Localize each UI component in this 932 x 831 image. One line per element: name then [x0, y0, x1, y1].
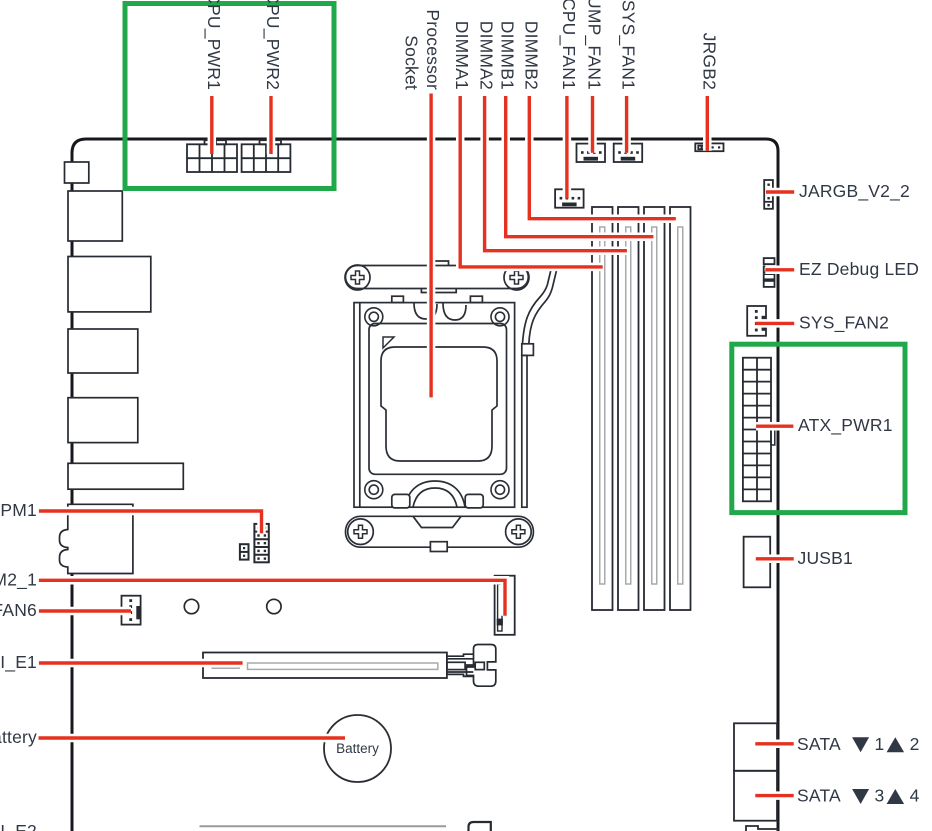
svg-text:2: 2 [910, 734, 920, 754]
svg-text:DIMMA1: DIMMA1 [452, 21, 472, 90]
DIMM slot DIMMA2 [618, 207, 639, 610]
label SATA 1 2 [797, 734, 920, 754]
io port usb1 [68, 329, 138, 373]
connector JARGB_V2_2 [764, 180, 773, 209]
svg-text:SYS_FAN6: SYS_FAN6 [0, 600, 37, 621]
DIMM slot DIMMA1 [592, 207, 613, 610]
wire SYS_FAN6 [39, 609, 131, 612]
svg-text:SATA: SATA [797, 786, 841, 806]
svg-text:SYS_FAN2: SYS_FAN2 [799, 312, 889, 333]
socket bottom arch [392, 481, 483, 508]
connector SYS_FAN2 [747, 306, 766, 336]
wire Processor Socket [429, 94, 432, 398]
label SATA 3 4 [797, 786, 920, 806]
svg-text:M2_1: M2_1 [0, 569, 37, 590]
svg-text:CPU_PWR2: CPU_PWR2 [262, 0, 283, 90]
svg-text:PUMP_FAN1: PUMP_FAN1 [584, 0, 605, 90]
svg-text:4: 4 [910, 786, 920, 806]
m.2 standoff hole B [267, 599, 281, 613]
connector PUMP_FAN1 [577, 144, 606, 162]
wire SATA34 [755, 794, 793, 797]
cpu socket top retention bar [346, 261, 529, 293]
io port ps2 [68, 191, 122, 241]
wire DIMMB1 [506, 96, 654, 237]
svg-text:SYS_FAN1: SYS_FAN1 [618, 0, 639, 90]
m.2 standoff hole A [184, 599, 198, 613]
svg-text:1: 1 [875, 734, 885, 754]
PCI_E1 slot [203, 653, 447, 679]
io port usb2 [68, 398, 138, 443]
svg-text:Processor: Processor [423, 9, 443, 90]
wire DIMMA1 [460, 96, 603, 267]
screw bottom-right phillips [506, 519, 532, 545]
io audio block [60, 504, 133, 573]
cpu socket frame [354, 296, 515, 507]
wire JTPM1 [39, 511, 262, 533]
wire SATA12 [755, 742, 793, 745]
right column labels [798, 181, 920, 568]
wire CPU_PWR2 [269, 96, 272, 154]
socket lever [522, 268, 557, 508]
wire M2_1 [39, 580, 505, 616]
wire DIMMA2 [485, 96, 627, 251]
svg-text:EZ Debug LED: EZ Debug LED [799, 259, 919, 279]
io port video [68, 463, 183, 489]
io tab [65, 162, 89, 183]
wire JRGB2 [706, 96, 709, 151]
svg-text:JRGB2: JRGB2 [699, 33, 719, 90]
screw bottom-left phillips [348, 519, 374, 545]
io port lan [68, 257, 151, 312]
svg-text:ATX_PWR1: ATX_PWR1 [798, 415, 893, 436]
svg-text:JARGB_V2_2: JARGB_V2_2 [799, 181, 910, 202]
screw top-right phillips [504, 265, 529, 290]
torx screws [365, 308, 509, 499]
left column labels [0, 500, 37, 831]
wire JARGB_V2_2 [766, 190, 794, 193]
wire CPU_FAN1 [565, 96, 568, 199]
connector JTPM1 [254, 524, 268, 562]
connector SYS_FAN6 [122, 596, 141, 625]
connector M2_1 slot [495, 576, 515, 635]
connector CPU_PWR2 [242, 140, 291, 172]
cpu IHS [381, 337, 497, 461]
wire SYS_FAN1 [625, 96, 628, 153]
svg-text:CPU_FAN1: CPU_FAN1 [558, 0, 579, 90]
wire SYS_FAN2 [756, 322, 795, 325]
svg-text:JUSB1: JUSB1 [798, 548, 853, 568]
cpu socket bottom retention bar [346, 516, 534, 551]
svg-text:DIMMB2: DIMMB2 [521, 21, 541, 90]
svg-text:Battery: Battery [336, 741, 379, 756]
connector SATA34 [734, 771, 777, 821]
PCI_E2 latch top [469, 822, 491, 831]
svg-text:Battery: Battery [0, 727, 37, 747]
svg-text:Socket: Socket [402, 35, 422, 90]
wire PUMP_FAN1 [591, 96, 594, 153]
svg-text:DIMMB1: DIMMB1 [498, 21, 518, 90]
DIMM slot DIMMB2 [670, 207, 691, 610]
wire CPU_PWR1 [210, 96, 213, 154]
wire Battery [39, 736, 346, 739]
io ports [60, 162, 184, 574]
connector JRGB2 [695, 143, 723, 151]
wire JUSB1 [756, 557, 794, 560]
sata bottom piece [746, 826, 778, 831]
white halos under leader lines [39, 94, 795, 796]
leader lines (red) [39, 94, 795, 796]
screw top-left phillips [345, 265, 370, 290]
connector CPU_FAN1 [555, 189, 584, 207]
connector SATA12 [734, 723, 777, 771]
svg-text:JTPM1: JTPM1 [0, 500, 37, 520]
wire ATX_PWR1 [756, 425, 793, 428]
PCI_E2 slot top edge [200, 825, 447, 827]
wire EZ Debug LED [765, 268, 794, 271]
connector SYS_FAN1 [614, 144, 643, 162]
DIMM slot DIMMB1 [644, 207, 665, 610]
jumper block next to JTPM1 [240, 544, 249, 559]
green highlight box ATX_PWR [732, 344, 905, 512]
connector ATX_PWR1 [743, 358, 775, 502]
svg-text:PCI_E2: PCI_E2 [0, 821, 37, 831]
top rotated labels [203, 0, 720, 90]
wire PCI_E1 [39, 661, 243, 664]
wire DIMMB2 [529, 96, 676, 219]
svg-text:3: 3 [875, 786, 885, 806]
svg-text:DIMMA2: DIMMA2 [477, 21, 497, 90]
PCI_E1 latch [447, 645, 496, 687]
green highlight box CPU_PWR [125, 4, 334, 189]
connector EZ Debug LED [764, 258, 775, 287]
svg-text:SATA: SATA [797, 734, 841, 754]
board outline [72, 139, 778, 831]
battery [324, 715, 391, 782]
connector CPU_PWR1 [187, 140, 237, 172]
svg-text:PCI_E1: PCI_E1 [0, 652, 37, 673]
connector JUSB1 [744, 537, 771, 588]
pin1 triangle [383, 337, 394, 348]
svg-text:CPU_PWR1: CPU_PWR1 [203, 0, 224, 90]
